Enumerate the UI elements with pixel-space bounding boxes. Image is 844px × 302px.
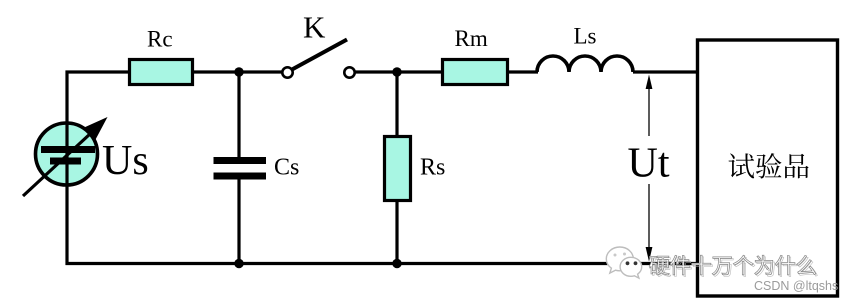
wire Rs top — [395, 72, 398, 137]
svg-text:Cs: Cs — [274, 155, 299, 181]
svg-text:Rs: Rs — [420, 155, 445, 181]
wire Ls to box — [633, 70, 697, 73]
resistor Rm — [443, 60, 508, 85]
label shiyanpin (test specimen) — [729, 153, 755, 178]
svg-text:Us: Us — [102, 138, 149, 184]
capacitor Cs bottom plate — [214, 173, 267, 180]
inductor Ls — [537, 56, 633, 72]
source Us short plate — [50, 158, 81, 165]
wire Cs bottom — [237, 179, 240, 264]
svg-text:K: K — [303, 10, 326, 45]
watermark logo eyes — [614, 254, 617, 257]
switch K right contact — [344, 67, 354, 77]
node junction top Rs — [392, 67, 401, 76]
resistor Rc — [130, 60, 193, 85]
source Us circle — [36, 123, 98, 185]
watermark text white layer — [649, 256, 669, 275]
node junction bottom Cs — [234, 259, 243, 268]
svg-text:Rm: Rm — [455, 26, 488, 51]
resistor Rs — [385, 137, 411, 201]
wire Cs top — [237, 72, 240, 158]
watermark logo bubbles — [606, 247, 641, 278]
measurement arrow Ut line — [648, 87, 650, 136]
wire Rc to switch — [192, 70, 282, 73]
svg-text:Ls: Ls — [574, 24, 597, 49]
wire bottom horizontal — [66, 262, 698, 265]
source Us inner wire — [65, 123, 68, 185]
wire switch to Rm — [355, 70, 443, 73]
svg-text:Ut: Ut — [628, 141, 670, 187]
watermark text yingjian shiwange weishenme — [651, 258, 671, 277]
node junction bottom Rs — [392, 259, 401, 268]
wire Rm to Ls — [507, 70, 538, 73]
wire Rs bottom — [395, 200, 398, 264]
svg-text:CSDN @ltqshs: CSDN @ltqshs — [754, 279, 838, 293]
source Us variability arrow — [23, 128, 97, 197]
capacitor Cs top plate — [214, 157, 267, 164]
switch K blade — [292, 40, 347, 70]
node junction top Cs — [234, 67, 243, 76]
wire left vertical (source branch) — [65, 71, 68, 266]
svg-text:Rc: Rc — [147, 27, 173, 52]
test object box — [698, 40, 838, 296]
wire top-left horizontal — [66, 70, 132, 73]
source Us long plate — [41, 146, 95, 153]
switch K left contact — [282, 67, 292, 77]
